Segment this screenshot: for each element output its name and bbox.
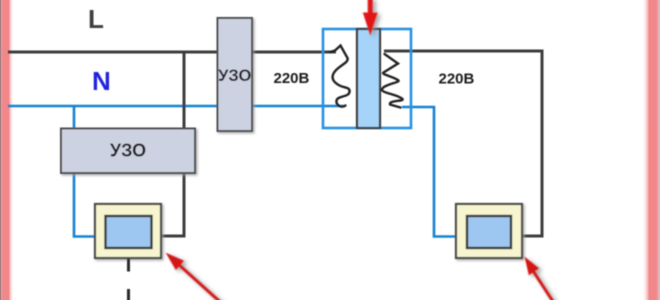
red arrow pointing at transformer bbox=[363, 0, 378, 36]
wire: black drop from UZO2 to left socket right terminal bbox=[160, 172, 184, 236]
breaker UZO1 (vertical box on line) bbox=[218, 18, 253, 131]
svg-text:N: N bbox=[92, 66, 111, 96]
svg-text:УЗО: УЗО bbox=[110, 141, 146, 161]
svg-text:220В: 220В bbox=[274, 70, 310, 87]
wire: L line from UZO1 to transformer left coil bbox=[251, 51, 336, 54]
left pink page border bbox=[0, 0, 14, 300]
socket X2 (right outlet) bbox=[456, 204, 522, 258]
wire: black branch from L line down to UZO2 bbox=[183, 52, 186, 129]
svg-text:УЗО: УЗО bbox=[218, 67, 251, 85]
wire: secondary blue wire from transformer to right socket bbox=[402, 107, 457, 237]
transformer T1 outer box bbox=[323, 29, 411, 128]
transformer core (blue bar) bbox=[357, 29, 380, 128]
socket X1 (left outlet) bbox=[95, 204, 161, 258]
wire: N line (neutral) from left border to UZO1 bbox=[8, 105, 218, 108]
svg-text:L: L bbox=[88, 4, 104, 34]
transformer secondary winding (right coil) bbox=[382, 54, 403, 108]
wire: L line from left border to UZO1 bbox=[8, 51, 218, 54]
right pink page border bbox=[642, 0, 660, 300]
red arrow pointing at left socket bbox=[166, 253, 224, 300]
red arrow pointing at right socket bbox=[525, 257, 555, 300]
wire: blue drop from UZO2 to left socket left terminal bbox=[74, 172, 96, 237]
breaker UZO2 (horizontal box) bbox=[61, 129, 195, 174]
wire: N line from UZO1 to transformer left coil bottom bbox=[251, 105, 345, 108]
wire: secondary black wire from transformer to right socket bbox=[384, 51, 542, 236]
transformer primary winding (left coil) bbox=[330, 46, 350, 107]
ground dashed lead below left socket bbox=[127, 259, 130, 300]
svg-text:220В: 220В bbox=[439, 71, 475, 88]
wire: blue branch from N line down to UZO2 bbox=[73, 106, 76, 129]
